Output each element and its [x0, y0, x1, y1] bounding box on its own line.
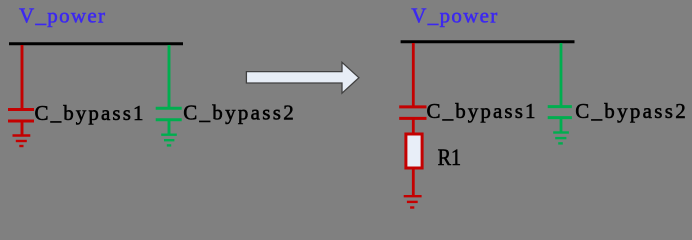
svg-text:C_bypass2: C_bypass2: [575, 99, 686, 123]
svg-text:V_power: V_power: [19, 4, 105, 28]
svg-text:C_bypass1: C_bypass1: [35, 101, 144, 125]
svg-text:R1: R1: [438, 145, 462, 171]
svg-text:C_bypass2: C_bypass2: [183, 101, 294, 125]
svg-text:V_power: V_power: [411, 4, 497, 28]
svg-text:C_bypass1: C_bypass1: [427, 99, 536, 123]
